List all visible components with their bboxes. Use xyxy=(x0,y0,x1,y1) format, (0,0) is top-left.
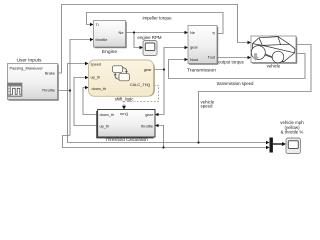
wire impeller torque Ti feedback xyxy=(87,13,224,34)
svg-text:& throttle %: & throttle % xyxy=(281,129,304,134)
block Engine xyxy=(94,21,127,56)
wire down_th xyxy=(83,88,98,115)
svg-text:vehicle: vehicle xyxy=(267,64,281,69)
svg-text:shift_logic: shift_logic xyxy=(115,96,135,101)
svg-text:Transmission: Transmission xyxy=(187,68,216,74)
wire throttle from User Inputs xyxy=(58,40,269,148)
wire gear from shift_logic xyxy=(154,48,186,115)
svg-text:gear: gear xyxy=(190,45,198,50)
junction throttle xyxy=(69,89,71,91)
svg-text:User Inputs: User Inputs xyxy=(16,58,42,64)
svg-text:transmission speed: transmission speed xyxy=(217,81,254,86)
junction throttle-threshold xyxy=(162,146,164,148)
wire up_th xyxy=(74,78,98,126)
arrow into mux in2 xyxy=(266,146,270,149)
wire brake from User Inputs around top to vehicle xyxy=(58,5,249,74)
svg-text:Passing_Maneuver: Passing_Maneuver xyxy=(10,66,44,71)
svg-text:speed: speed xyxy=(201,104,214,109)
svg-text:up_th: up_th xyxy=(100,124,110,129)
info arrow xyxy=(253,54,259,61)
svg-text:throttle: throttle xyxy=(96,37,108,42)
arrow into scope1 xyxy=(140,46,144,49)
wire CALC_TH dashed trigger xyxy=(124,86,159,108)
arrow into transmission Ne xyxy=(185,31,189,34)
arrow into threshold throttle xyxy=(155,124,159,127)
svg-text:Nout: Nout xyxy=(190,57,199,62)
svg-text:Ne: Ne xyxy=(119,30,124,35)
svg-text:Throttle: Throttle xyxy=(42,88,55,93)
wire Ne engine to transmission xyxy=(126,33,186,48)
svg-text:impeller torque: impeller torque xyxy=(142,16,172,21)
arrow into transmission gear xyxy=(185,46,189,49)
arrow into threshold gear xyxy=(155,113,159,116)
arrow into transmission Nout xyxy=(185,58,189,61)
block Threshold Calculation xyxy=(96,110,155,143)
mux xyxy=(270,138,287,153)
svg-text:down_th: down_th xyxy=(92,86,107,91)
svg-text:CALC_TH(): CALC_TH() xyxy=(130,82,151,87)
block User Inputs xyxy=(8,58,59,101)
svg-text:output torque: output torque xyxy=(218,59,244,64)
svg-text:Engine: Engine xyxy=(102,49,118,55)
svg-text:Tout: Tout xyxy=(208,55,216,60)
svg-text:run(): run() xyxy=(120,111,129,116)
svg-text:engine RPM: engine RPM xyxy=(137,35,162,40)
arrow trigger into threshold xyxy=(122,106,126,110)
arrow into engine throttle xyxy=(90,38,94,41)
junction Ne xyxy=(133,31,135,33)
arrow into shift_logic speed xyxy=(85,62,89,65)
svg-text:gear: gear xyxy=(145,112,153,117)
block Transmission xyxy=(187,26,218,74)
block scope vehicle mph xyxy=(280,120,304,153)
svg-text:Threshold Calculation: Threshold Calculation xyxy=(105,137,148,142)
block vehicle xyxy=(251,36,297,69)
arrow into mux in1 xyxy=(266,141,270,144)
svg-text:Ti: Ti xyxy=(96,22,99,27)
svg-text:throttle: throttle xyxy=(141,124,153,129)
arrow into vehicle in2 xyxy=(248,56,252,59)
block scope engine RPM xyxy=(137,35,162,56)
arrow into shift_logic down_th xyxy=(85,86,89,89)
signal builder icon xyxy=(8,83,22,97)
svg-text:up_th: up_th xyxy=(91,75,101,80)
svg-text:gear: gear xyxy=(144,67,152,72)
arrowheads xyxy=(85,23,270,149)
svg-text:Brake: Brake xyxy=(45,71,55,76)
wire output torque xyxy=(217,57,249,59)
wire vehicle speed feedback xyxy=(68,45,312,143)
arrow into engine Ti xyxy=(90,23,94,26)
chart shift_logic xyxy=(89,60,155,101)
arrow into shift_logic up_th xyxy=(85,76,89,79)
svg-text:Ti: Ti xyxy=(212,31,215,36)
junction gear xyxy=(163,68,165,70)
car icon xyxy=(253,37,296,62)
arrow into vehicle in1 xyxy=(248,41,252,44)
wire transmission speed feedback xyxy=(169,54,306,79)
svg-text:down_th: down_th xyxy=(100,112,115,117)
svg-text:Ne: Ne xyxy=(190,30,195,35)
junction vehicle speed xyxy=(197,141,199,143)
state doodle xyxy=(112,66,122,73)
svg-text:speed: speed xyxy=(91,61,102,66)
